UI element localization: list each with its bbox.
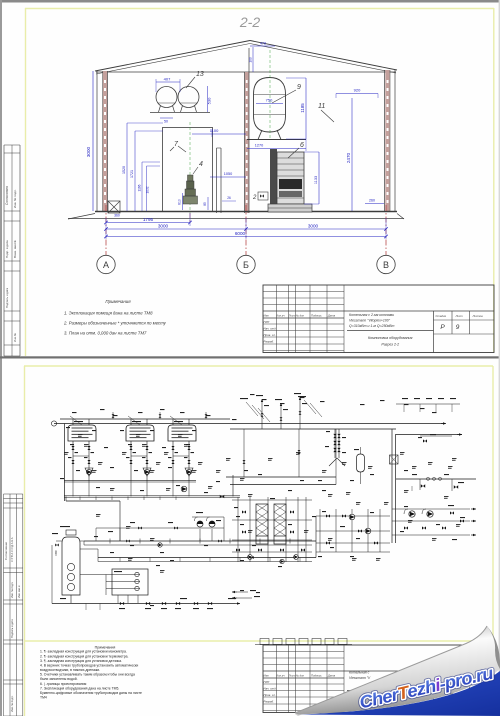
svg-text:Изм. № подл.: Изм. № подл. [10, 695, 14, 712]
svg-text:Согласовано: Согласовано [5, 186, 9, 205]
svg-text:2-2: 2-2 [239, 14, 260, 30]
svg-text:1166: 1166 [138, 184, 142, 191]
svg-text:Viessmann "V: Viessmann "V [349, 676, 371, 680]
svg-text:С Р В А С О Д А Н А: С Р В А С О Д А Н А [10, 537, 14, 562]
svg-text:1520: 1520 [122, 166, 126, 174]
svg-text:А: А [103, 260, 109, 270]
svg-text:Лист: Лист [288, 314, 297, 318]
svg-text:1721: 1721 [130, 170, 134, 178]
svg-text:ТМ4: ТМ4 [40, 696, 47, 700]
svg-text:№ док: № док [296, 314, 305, 318]
svg-text:Подпись: Подпись [311, 314, 322, 318]
svg-text:ГИП: ГИП [264, 680, 271, 684]
svg-text:3000: 3000 [308, 224, 319, 229]
svg-text:4: 4 [199, 161, 203, 168]
svg-text:1. ¶ -закладная конструкция: 1. ¶ -закладная конструкция для установк… [40, 650, 127, 654]
svg-text:750: 750 [266, 98, 273, 103]
svg-text:920: 920 [354, 88, 361, 93]
svg-text:7. Экспликация оборудования да: 7. Экспликация оборудования дана на лист… [40, 687, 119, 691]
svg-text:Разрез 2-2: Разрез 2-2 [381, 343, 399, 347]
svg-text:9: 9 [297, 84, 301, 91]
svg-text:Согласовано: Согласовано [4, 542, 8, 560]
svg-text:6. | -границы проектирования: 6. | -границы проектирования [40, 682, 86, 686]
svg-text:Буквенно-цифровые обозначения: Буквенно-цифровые обозначения трубопрово… [40, 691, 142, 695]
svg-text:1270: 1270 [255, 144, 263, 148]
svg-text:В: В [383, 260, 389, 270]
svg-text:Нач. отд: Нач. отд [264, 687, 277, 691]
svg-text:были заполнены водой.: были заполнены водой. [40, 677, 78, 681]
svg-text:Инв. № подл.: Инв. № подл. [10, 582, 14, 598]
svg-text:2. Размеры обозначенные * уточ: 2. Размеры обозначенные * уточняется по … [63, 321, 167, 326]
svg-text:Разраб.: Разраб. [264, 700, 275, 704]
svg-text:2470: 2470 [346, 152, 351, 163]
svg-text:Котельная с: Котельная с [349, 671, 370, 675]
svg-text:1133: 1133 [314, 176, 318, 184]
svg-text:Кол.уч: Кол.уч [277, 674, 286, 678]
svg-text:2: 2 [252, 195, 257, 201]
svg-text:Q=310кВт и 1-м Q=250кВт: Q=310кВт и 1-м Q=250кВт [349, 324, 394, 328]
svg-text:Пров. гл.: Пров. гл. [264, 333, 276, 337]
svg-text:Стадия: Стадия [436, 314, 447, 318]
svg-text:1185: 1185 [300, 103, 305, 113]
svg-text:Изм: Изм [264, 674, 269, 678]
svg-text:Примечания: Примечания [105, 299, 131, 304]
svg-text:360: 360 [114, 214, 120, 218]
svg-text:воздухоотводчики, в нижних-дре: воздухоотводчики, в нижних-дренажи. [40, 668, 100, 672]
svg-text:3000: 3000 [86, 146, 91, 157]
svg-text:26: 26 [227, 196, 231, 200]
svg-text:Нач. отд: Нач. отд [264, 327, 277, 331]
svg-text:Взам. инв.№: Взам. инв.№ [13, 239, 17, 258]
svg-text:Разраб.: Разраб. [264, 340, 275, 344]
svg-text:9: 9 [456, 324, 460, 331]
svg-text:6000: 6000 [235, 231, 246, 236]
svg-text:478: 478 [260, 42, 266, 46]
svg-text:Пров. гл.: Пров. гл. [264, 693, 276, 697]
svg-text:Инв. № подл.: Инв. № подл. [13, 189, 17, 208]
svg-text:Кол.уч: Кол.уч [277, 314, 286, 318]
svg-text:Р: Р [440, 324, 445, 331]
svg-text:1032: 1032 [146, 186, 150, 193]
svg-text:Изм: Изм [264, 314, 269, 318]
svg-text:Лист: Лист [288, 674, 297, 678]
svg-text:Инв.№: Инв.№ [13, 333, 17, 342]
svg-text:Подпись: Подпись [311, 674, 322, 678]
svg-text:Дата: Дата [327, 674, 336, 678]
svg-text:6: 6 [300, 142, 304, 149]
svg-text:1795: 1795 [143, 217, 154, 222]
svg-text:Подпись и дата: Подпись и дата [5, 287, 9, 308]
svg-text:Компоновка оборудования: Компоновка оборудования [368, 336, 413, 340]
svg-text:3. План на отм. 0,000 дан на л: 3. План на отм. 0,000 дан на листе ТМ7 [64, 331, 147, 336]
svg-text:610: 610 [178, 199, 182, 205]
svg-text:Инв. мм. в: Инв. мм. в [17, 585, 21, 598]
svg-text:260: 260 [369, 199, 375, 203]
svg-text:5. Счетчики устанавливать таки: 5. Счетчики устанавливать таким образом,… [40, 673, 135, 677]
svg-text:1. Экспликация помещя дана на: 1. Экспликация помещя дана на листе ТМ8 [64, 311, 153, 316]
svg-text:85: 85 [203, 202, 207, 206]
svg-text:2. ¶ -закладная конструкция: 2. ¶ -закладная конструкция для установк… [40, 655, 128, 659]
svg-text:ГИП: ГИП [264, 320, 271, 324]
svg-text:Подпись и дата: Подпись и дата [10, 619, 14, 638]
svg-text:407: 407 [164, 77, 171, 82]
svg-text:3. ¶ -закладная конструкция: 3. ¶ -закладная конструкция для установк… [40, 659, 122, 663]
svg-text:100: 100 [249, 57, 253, 63]
svg-text:Лист: Лист [455, 314, 464, 318]
svg-text:ХВС: ХВС [54, 549, 58, 556]
svg-text:1050: 1050 [224, 172, 232, 176]
svg-text:Б: Б [243, 260, 249, 270]
svg-text:Котельная с 2-мя котлами: Котельная с 2-мя котлами [349, 313, 394, 317]
svg-text:4. В верхних точках трубопрово: 4. В верхних точках трубопроводов устано… [40, 664, 138, 668]
svg-text:№ док: № док [296, 674, 305, 678]
svg-text:530: 530 [207, 97, 212, 104]
svg-text:3000: 3000 [158, 224, 169, 229]
svg-text:50: 50 [164, 120, 168, 124]
svg-text:Листов: Листов [472, 314, 484, 318]
svg-text:Дата: Дата [327, 314, 336, 318]
svg-text:1100: 1100 [210, 128, 219, 133]
svg-text:Viessmann "Vitoplex+100": Viessmann "Vitoplex+100" [349, 319, 391, 323]
svg-text:11: 11 [318, 103, 325, 110]
svg-text:Подп. и дата: Подп. и дата [5, 240, 9, 258]
svg-text:13: 13 [196, 71, 204, 78]
